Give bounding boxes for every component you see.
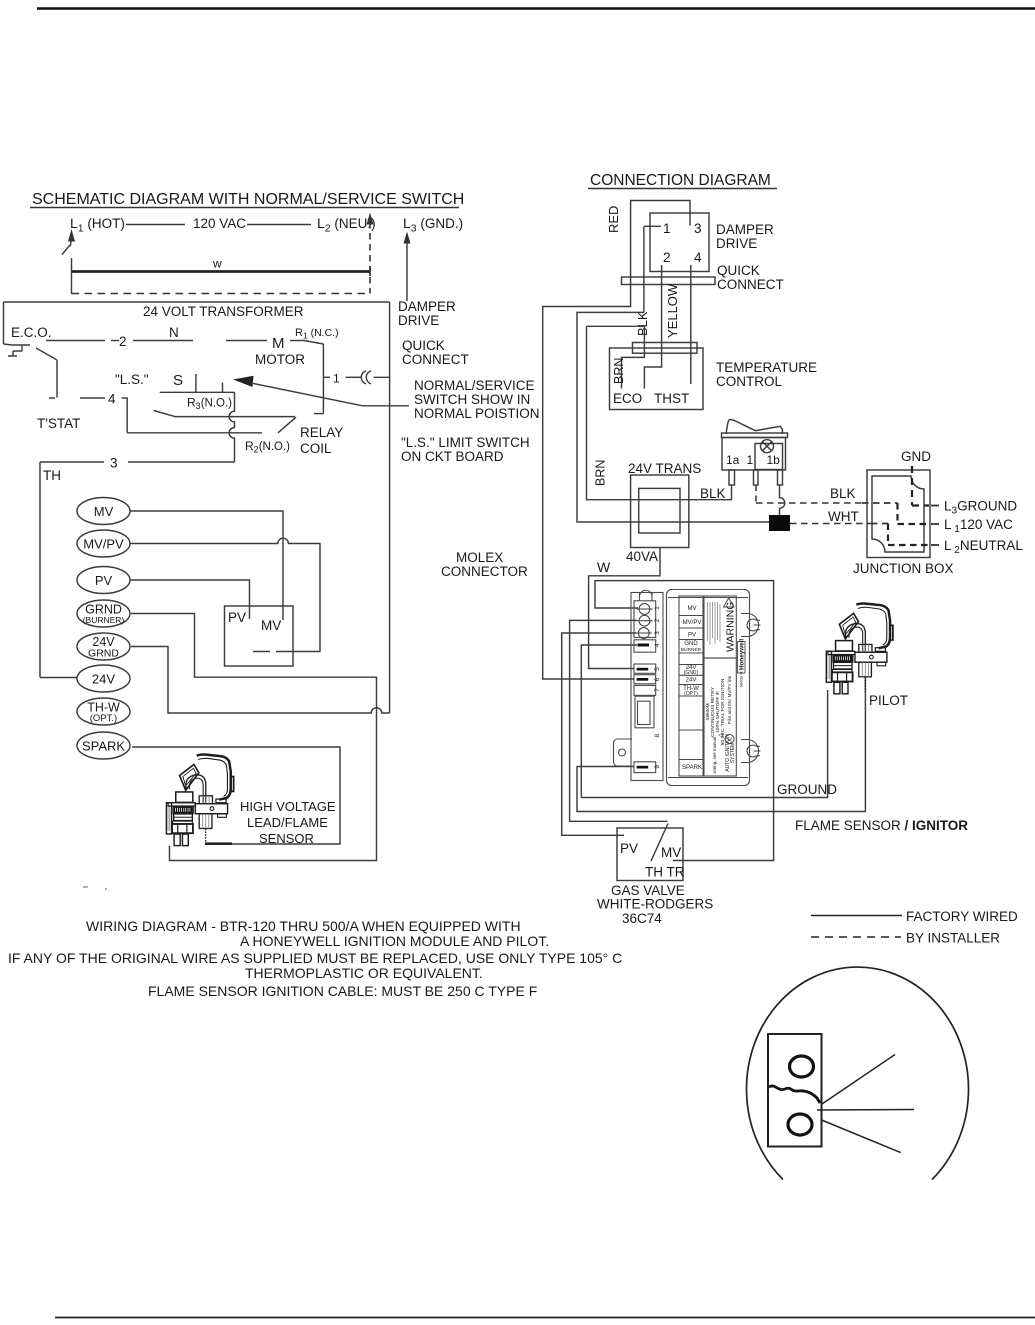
pilot graphic (right)	[826, 603, 893, 693]
title: schematic diagram	[32, 191, 464, 208]
svg-text:WHITE-RODGERS: WHITE-RODGERS	[597, 897, 713, 912]
svg-text:CONNECTION DIAGRAM: CONNECTION DIAGRAM	[590, 172, 771, 189]
svg-text:Pilot and MV, MV/PV link: Pilot and MV, MV/PV link	[727, 675, 732, 724]
svg-text:3: 3	[110, 456, 118, 471]
svg-text:A HONEYWELL IGNITION MODULE AN: A HONEYWELL IGNITION MODULE AND PILOT.	[240, 933, 549, 949]
svg-text:MV: MV	[688, 606, 697, 612]
node L3 GROUND	[853, 499, 1023, 577]
svg-text:BY INSTALLER: BY INSTALLER	[906, 931, 1000, 946]
temp control quick connect bar	[633, 343, 698, 354]
module mounting ear top	[741, 614, 761, 637]
page bottom border	[55, 1317, 1035, 1319]
svg-text:PV: PV	[228, 610, 246, 625]
svg-text:COIL: COIL	[300, 441, 332, 456]
normal/service switch at L1 (arrow + blade)	[68, 229, 75, 242]
wire BRN to ECO with switch tie	[587, 326, 645, 388]
svg-text:(OPT): (OPT)	[684, 691, 698, 697]
right-side callout labels of schematic	[398, 299, 540, 579]
svg-text:SPARK: SPARK	[682, 765, 702, 771]
svg-text:MV/PV: MV/PV	[83, 537, 124, 552]
wire WHT dashed inside junction box	[871, 523, 888, 525]
svg-text:1: 1	[747, 453, 754, 467]
svg-text:1b: 1b	[767, 453, 781, 467]
terminal 4	[634, 640, 656, 652]
svg-text:NORMAL/SERVICE: NORMAL/SERVICE	[414, 378, 535, 393]
svg-text:1a: 1a	[726, 453, 740, 467]
svg-text:5: 5	[654, 667, 661, 671]
node M (motor relay)	[272, 335, 285, 352]
relay coil vertical with wire hops	[229, 392, 234, 462]
burner bracket rectangle	[768, 1034, 822, 1147]
svg-text:2: 2	[119, 334, 127, 349]
legend: by installer	[811, 936, 901, 938]
wire 120 VAC to L2	[247, 224, 311, 226]
svg-text:SYSTEM: SYSTEM	[730, 743, 736, 764]
svg-text:SWITCH SHOW IN: SWITCH SHOW IN	[414, 392, 530, 407]
label BLK (rotated)	[635, 311, 650, 336]
svg-text:T'STAT: T'STAT	[37, 416, 80, 431]
terminal 9 SPARK	[634, 762, 656, 773]
splice black square	[769, 515, 790, 531]
wire module term1 MV loop to gas valve MV	[595, 581, 774, 861]
svg-text:6: 6	[654, 677, 661, 681]
node N	[169, 325, 179, 340]
R2 blade	[278, 417, 296, 433]
svg-text:24V TRANS: 24V TRANS	[628, 461, 701, 476]
svg-text:JUNCTION BOX: JUNCTION BOX	[853, 561, 954, 576]
svg-text:40VA: 40VA	[626, 549, 658, 564]
svg-text:1: 1	[654, 606, 661, 610]
svg-text:RED: RED	[606, 206, 621, 233]
svg-text:M: M	[272, 335, 285, 352]
label BRN at ECO (rotated)	[612, 358, 626, 384]
labels BLK / WHT	[828, 486, 859, 524]
module mounting ear bottom	[741, 740, 761, 763]
svg-text:PV: PV	[95, 573, 113, 588]
terminal PV ellipse	[77, 567, 130, 594]
svg-text:BLK: BLK	[830, 486, 856, 501]
svg-text:CONTROL: CONTROL	[716, 374, 782, 389]
24 volt transformer box	[4, 301, 390, 303]
svg-text:PILOT: PILOT	[869, 693, 908, 708]
node w label	[212, 257, 222, 271]
terminal SPARK ellipse	[77, 732, 130, 759]
svg-text:"L.S.": "L.S."	[115, 372, 149, 387]
burner fan line down	[822, 1120, 901, 1153]
node L2 (NEU.)	[317, 215, 376, 235]
wire stub to L2	[931, 544, 939, 546]
burner ring bottom	[788, 1114, 812, 1135]
svg-text:2: 2	[654, 619, 661, 623]
junction box	[867, 470, 930, 558]
temperature control box	[610, 348, 704, 410]
svg-text:S8600 M: S8600 M	[739, 671, 744, 687]
terminal screw 1	[639, 604, 650, 615]
terminal 24V ellipse	[77, 665, 130, 692]
transformer 24V TRANS	[628, 461, 701, 476]
svg-text:DAMPER: DAMPER	[716, 222, 774, 237]
damper drive plug	[650, 213, 709, 272]
svg-text:R3(N.O.): R3(N.O.)	[187, 396, 232, 412]
E.C.O. switch symbol	[4, 344, 31, 356]
bottom note text	[8, 918, 622, 999]
page top border	[37, 7, 1035, 10]
wire GROUND to pilot	[581, 690, 827, 798]
svg-text:MOTOR: MOTOR	[255, 352, 305, 367]
svg-text:(BURNER): (BURNER)	[83, 615, 125, 625]
svg-text:3: 3	[694, 221, 702, 236]
svg-text:R1 (N.C.): R1 (N.C.)	[295, 327, 339, 341]
module warning label	[704, 596, 736, 658]
wire motor drop	[322, 344, 324, 414]
svg-text:TH: TH	[43, 468, 61, 483]
svg-text:"L.S." LIMIT SWITCH: "L.S." LIMIT SWITCH	[401, 435, 530, 450]
wire PV	[130, 580, 250, 619]
R3 blade	[154, 411, 175, 417]
svg-text:MV: MV	[661, 845, 681, 860]
burner detail circle	[747, 967, 969, 1179]
svg-text:PV: PV	[688, 633, 696, 639]
svg-text:NORMAL POISTION: NORMAL POISTION	[414, 406, 540, 421]
wire TH vertical	[39, 462, 41, 678]
wire L3 damper drive arrow	[406, 242, 408, 301]
svg-text:E.C.O.: E.C.O.	[11, 325, 52, 340]
quick connect bar	[622, 277, 716, 285]
pin 1 stub	[644, 225, 661, 227]
terminal screw 3	[638, 628, 649, 639]
wire GND dashed	[911, 466, 913, 506]
wire 24V GRND with hop	[131, 647, 390, 714]
svg-text:LEAD/FLAME: LEAD/FLAME	[247, 815, 328, 830]
wire MV/PV with hop	[130, 538, 320, 651]
svg-text:9: 9	[654, 765, 661, 769]
svg-text:4: 4	[654, 643, 661, 647]
svg-text:THERMOPLASTIC OR EQUIVALENT.: THERMOPLASTIC OR EQUIVALENT.	[245, 965, 483, 981]
burner ring top	[790, 1056, 814, 1077]
wire module term3 PV to gas valve PV	[562, 633, 636, 835]
svg-text:ON CKT BOARD: ON CKT BOARD	[401, 449, 504, 464]
svg-text:MV: MV	[261, 618, 281, 633]
svg-text:24 VOLT TRANSFORMER: 24 VOLT TRANSFORMER	[143, 304, 304, 319]
wire WHT: pin1 to black square	[577, 312, 769, 522]
svg-text:ECO: ECO	[613, 391, 642, 406]
quick connect 1	[323, 376, 330, 378]
node S	[173, 372, 183, 389]
wire BRN: damper pin1 down	[643, 226, 645, 312]
wire SPARK / high voltage lead loop	[132, 747, 340, 844]
wire molex long vertical	[389, 302, 391, 713]
svg-text:GND: GND	[901, 449, 931, 464]
wire YELLOW: damper pin4 down to THST	[690, 265, 692, 384]
svg-text:2: 2	[663, 250, 671, 265]
svg-text:SCHEMATIC DIAGRAM WITH NORMAL/: SCHEMATIC DIAGRAM WITH NORMAL/SERVICE SW…	[32, 191, 464, 208]
wire 4	[49, 397, 55, 399]
svg-text:MV/PV: MV/PV	[683, 620, 702, 626]
svg-text:MV: MV	[94, 504, 114, 519]
terminal 7	[634, 685, 656, 695]
svg-text:SPARK: SPARK	[82, 739, 125, 754]
terminal MV/PV ellipse	[77, 530, 130, 557]
svg-text:DAMPER: DAMPER	[398, 299, 456, 314]
wire module term4 ground	[581, 645, 637, 798]
svg-text:24V: 24V	[92, 672, 115, 687]
svg-text:(OPT.): (OPT.)	[90, 713, 117, 724]
svg-text:△: △	[718, 732, 724, 737]
contact R1 (N.C.)	[295, 327, 339, 341]
valve plug box PV MV	[225, 606, 294, 666]
wire RED: damper pin3 to module 24V	[543, 201, 690, 680]
label BRN near transformer (rotated)	[594, 460, 608, 486]
contact stubs above R3	[195, 374, 197, 392]
label RED (rotated)	[606, 206, 621, 233]
svg-text:120 VAC: 120 VAC	[193, 216, 246, 231]
svg-text:QUICK: QUICK	[402, 338, 445, 353]
terminal TH-W ellipse	[77, 698, 130, 725]
svg-text:CONNECT: CONNECT	[717, 277, 784, 292]
legend: factory wired	[811, 915, 902, 917]
switch "L.S." label	[115, 372, 149, 387]
svg-text:S8600M: S8600M	[705, 703, 710, 720]
svg-text:1: 1	[333, 372, 340, 386]
wire BLK to rocker switch 1a	[587, 326, 732, 499]
stray marks	[83, 886, 88, 888]
burner fan line up	[822, 1055, 895, 1105]
svg-text:Honeywell: Honeywell	[739, 639, 746, 670]
svg-text:IF ANY OF THE ORIGINAL WIRE AS: IF ANY OF THE ORIGINAL WIRE AS SUPPLIED …	[8, 950, 622, 966]
svg-text:FACTORY WIRED: FACTORY WIRED	[906, 909, 1018, 924]
contact R3 (N.O.)	[160, 391, 235, 393]
high voltage lead/flame sensor label	[240, 799, 336, 846]
svg-text:3: 3	[654, 631, 661, 635]
svg-text:36C74: 36C74	[622, 911, 662, 926]
svg-text:TEMPERATURE: TEMPERATURE	[716, 360, 817, 375]
wire MV to valve box	[130, 511, 283, 620]
svg-text:24V: 24V	[686, 678, 697, 684]
wire 4-line horizontal	[127, 432, 262, 434]
relay coil label	[300, 425, 343, 456]
wire WHT dashed to junction box	[790, 523, 871, 525]
svg-text:4: 4	[108, 392, 116, 407]
svg-text:S: S	[173, 372, 183, 389]
module body	[667, 590, 750, 786]
svg-text:WHT: WHT	[828, 509, 859, 524]
wire 2 (E.C.O. to N to M)	[46, 340, 105, 342]
svg-text:HIGH VOLTAGE: HIGH VOLTAGE	[240, 799, 336, 814]
svg-text:RELAY: RELAY	[300, 425, 343, 440]
svg-text:FLAME SENSOR IGNITION CABLE: M: FLAME SENSOR IGNITION CABLE: MUST BE 250…	[148, 983, 537, 999]
svg-text:THST: THST	[654, 391, 689, 406]
contact R2 (N.O.) label	[245, 439, 290, 455]
label BLK near switch	[700, 486, 726, 501]
node TH	[43, 468, 61, 483]
svg-text:WARNING: WARNING	[725, 602, 737, 652]
wire dashed to L2 (by installer)	[72, 293, 371, 295]
title: connection diagram	[590, 172, 771, 189]
switch pins	[729, 470, 735, 485]
terminal MV ellipse	[77, 498, 130, 525]
terminal 6	[634, 675, 656, 684]
svg-text:CONNECT: CONNECT	[402, 352, 469, 367]
svg-text:BLK: BLK	[700, 486, 726, 501]
gas valve	[617, 828, 683, 881]
switch lamp X	[761, 440, 774, 453]
wire switch pin1 dashed (by installer)	[755, 485, 757, 503]
node L1 (HOT)	[70, 215, 125, 235]
svg-text:W: W	[597, 559, 611, 575]
svg-text:R2(N.O.): R2(N.O.)	[245, 439, 290, 455]
node E.C.O.	[11, 325, 52, 340]
svg-text:BRN: BRN	[594, 460, 608, 486]
svg-text:TH TR: TH TR	[645, 865, 685, 880]
svg-text:1: 1	[663, 221, 671, 236]
svg-text:GROUND: GROUND	[777, 782, 837, 797]
svg-text:BLK: BLK	[635, 311, 650, 336]
wire switch pin 1b to black square (hop)	[780, 485, 785, 515]
label YELLOW (rotated)	[665, 283, 680, 338]
wire R3 fixed line	[174, 416, 295, 418]
svg-text:FLAME SENSOR / IGNITOR: FLAME SENSOR / IGNITOR	[795, 818, 968, 833]
terminal 5	[634, 664, 656, 673]
normal/service pointer arrow	[233, 376, 254, 387]
wire 40VA to module terminal 5 (W)	[589, 548, 660, 669]
svg-text:BURNER: BURNER	[681, 647, 702, 653]
wire GRND (burner ground path)	[131, 614, 377, 861]
flame sensor graphic (left)	[166, 754, 233, 845]
svg-text:CONNECTOR: CONNECTOR	[441, 564, 528, 579]
svg-text:DRIVE: DRIVE	[398, 313, 439, 328]
svg-text:7: 7	[654, 688, 661, 692]
terminal GRND (BURNER) ellipse	[77, 600, 130, 627]
rocker switch	[726, 419, 782, 434]
svg-text:GND: GND	[684, 641, 698, 647]
burner squiggle wire	[769, 1086, 820, 1103]
wire module term2 MV/PV to gas valve TH-TR	[570, 620, 668, 821]
module spec label	[704, 658, 736, 776]
burner fan line mid	[817, 1109, 914, 1112]
svg-text:QUICK: QUICK	[717, 263, 760, 278]
pin numbers column	[654, 606, 661, 769]
wire module term9 SPARK to pilot igniter	[577, 676, 865, 812]
wire L1 drop	[71, 258, 73, 294]
wire BLK dashed inside junction box	[862, 502, 898, 504]
svg-text:YELLOW: YELLOW	[665, 283, 680, 338]
terminal 24V GRND ellipse	[77, 633, 130, 660]
svg-text:BRN: BRN	[612, 358, 626, 384]
module terminal column	[631, 593, 663, 781]
label 120 VAC	[193, 216, 246, 231]
svg-text:MOLEX: MOLEX	[456, 550, 503, 565]
wire w (thick)	[72, 270, 371, 273]
wire 3	[40, 461, 104, 463]
svg-text:4: 4	[694, 250, 702, 265]
svg-text:wiring, see manual: wiring, see manual	[712, 737, 717, 774]
svg-text:WIRING DIAGRAM - BTR-120 THRU: WIRING DIAGRAM - BTR-120 THRU 500/A WHEN…	[86, 918, 521, 934]
svg-text:SENSOR: SENSOR	[259, 831, 314, 846]
svg-text:8: 8	[654, 734, 661, 738]
wire stub to L3	[931, 505, 939, 507]
terminal screw 2	[639, 615, 650, 626]
Honeywell strip	[738, 642, 746, 674]
module label column	[679, 596, 703, 776]
wire stub to L1	[931, 523, 939, 525]
T'STAT lever	[36, 348, 57, 360]
svg-text:w: w	[212, 257, 222, 271]
module connector block	[635, 696, 654, 728]
svg-text:GRND: GRND	[88, 648, 119, 660]
svg-text:(GND): (GND)	[684, 670, 699, 676]
svg-text:N: N	[169, 325, 179, 340]
wire L1 to 120 VAC	[126, 224, 185, 226]
node L3 (GND.)	[403, 215, 463, 235]
wire BLK: damper pin2 down to THST	[644, 265, 661, 389]
svg-text:DRIVE: DRIVE	[716, 236, 757, 251]
module mounting tab with hole	[614, 739, 633, 766]
svg-text:PV: PV	[620, 841, 638, 856]
